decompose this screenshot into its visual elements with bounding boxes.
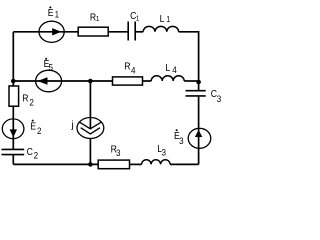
inductor L1 bbox=[143, 13, 178, 32]
svg-text:3: 3 bbox=[162, 147, 167, 158]
svg-text:1: 1 bbox=[55, 9, 60, 20]
current source J bbox=[71, 118, 104, 139]
svg-text:R: R bbox=[22, 93, 28, 105]
wire: L3 to bottom-right corner bbox=[170, 163, 199, 165]
svg-text:3: 3 bbox=[116, 147, 121, 158]
svg-text:2: 2 bbox=[37, 125, 42, 136]
capacitor C2 bbox=[2, 146, 39, 160]
emf source E2 bbox=[2, 119, 41, 139]
wire: L1 to top-right corner then down to C3 top plate bbox=[179, 32, 199, 91]
svg-text:L: L bbox=[165, 62, 170, 74]
emf source E1 bbox=[39, 6, 64, 42]
svg-text:1: 1 bbox=[136, 15, 140, 23]
svg-text:E: E bbox=[48, 7, 54, 19]
wire: L4 to right vertical bbox=[184, 80, 198, 82]
svg-text:4: 4 bbox=[172, 64, 177, 75]
svg-text:L: L bbox=[160, 13, 165, 25]
wire: row2 from left vertical through E5 to R4 bbox=[13, 80, 112, 82]
svg-text:E: E bbox=[30, 121, 36, 133]
junction: left vertical and row2 bbox=[11, 79, 16, 84]
svg-text:C: C bbox=[27, 146, 33, 158]
junction: row2 and right vertical bbox=[196, 80, 201, 85]
junction: J branch and bottom row bbox=[88, 162, 93, 167]
svg-text:2: 2 bbox=[34, 150, 39, 161]
wire: R3 to L3 bbox=[130, 163, 142, 165]
resistor R2 bbox=[9, 86, 34, 108]
junction: row2 and J branch bbox=[88, 79, 93, 84]
svg-text:3: 3 bbox=[217, 94, 222, 105]
svg-text:4: 4 bbox=[131, 65, 136, 76]
wire: R4 to L4 bbox=[143, 80, 152, 82]
wire: J branch from row2 junction down through J to bottom row bbox=[89, 81, 91, 164]
wire: bottom row from bottom-left corner to R3 bbox=[13, 163, 98, 165]
resistor R4 bbox=[113, 61, 143, 85]
wire: top row, top-left corner through E1 to R1 bbox=[13, 31, 78, 33]
svg-text:R: R bbox=[124, 61, 130, 73]
inductor L3 bbox=[142, 143, 171, 164]
svg-text:1: 1 bbox=[166, 14, 170, 24]
emf source E5 bbox=[36, 58, 62, 92]
wire: left vertical from top corner to R2 bbox=[12, 32, 14, 86]
wire: R2 to E2 to C2 top plate bbox=[12, 106, 14, 149]
emf source E3 bbox=[174, 128, 211, 148]
svg-text:3: 3 bbox=[179, 135, 184, 146]
resistor R1 bbox=[78, 12, 108, 36]
wire: R1 to C1 left plate bbox=[108, 31, 128, 33]
svg-text:5: 5 bbox=[49, 62, 54, 73]
resistor R3 bbox=[98, 144, 129, 169]
inductor L4 bbox=[151, 62, 184, 81]
svg-text:2: 2 bbox=[29, 97, 34, 108]
wire: C1 right plate to L1 bbox=[135, 31, 143, 33]
capacitor C3 bbox=[186, 89, 222, 105]
wire: C2 bottom plate to bottom-left corner bbox=[12, 155, 14, 165]
capacitor C1 bbox=[128, 10, 139, 40]
svg-text:1: 1 bbox=[96, 16, 100, 24]
svg-text:j: j bbox=[71, 120, 74, 131]
wire: right vertical from C3 bottom plate through E3 to bottom-right corner bbox=[198, 96, 200, 164]
